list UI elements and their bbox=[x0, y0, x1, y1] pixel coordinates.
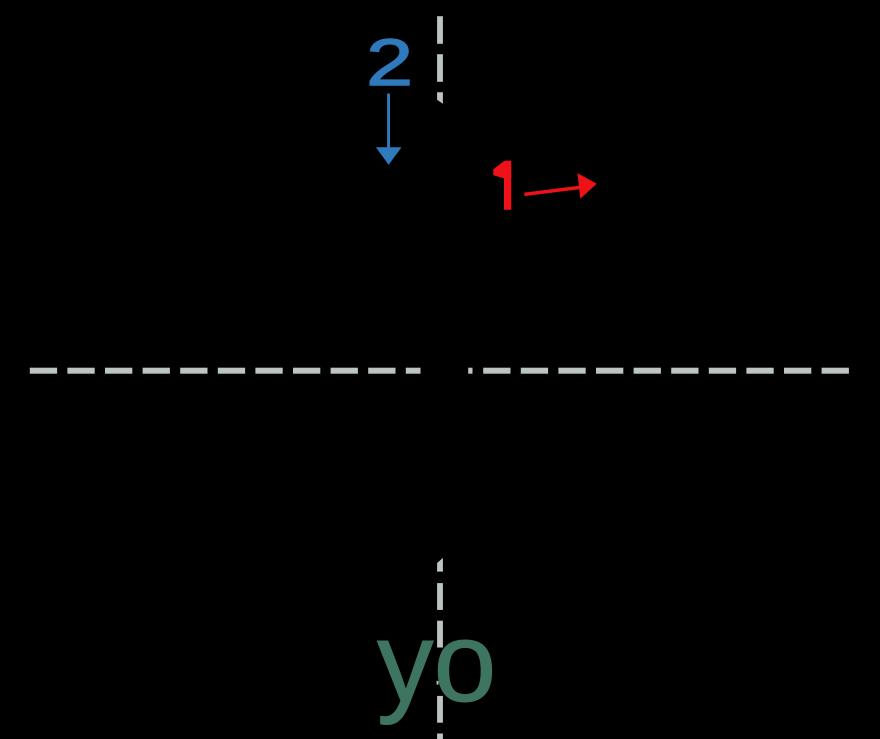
vertical dashed axis, top segment bbox=[437, 16, 443, 104]
horizontal dashed optical axis, center fragment bbox=[468, 368, 472, 374]
label 1 (red) bbox=[493, 161, 511, 210]
vertical dashed axis, bottom segment bbox=[437, 558, 443, 739]
arrow for label 1 (red, pointing right) bbox=[524, 173, 597, 199]
arrow for label 2 (blue, pointing down) bbox=[376, 94, 402, 165]
horizontal dashed optical axis, left segment bbox=[30, 368, 421, 374]
svg-text:2: 2 bbox=[366, 26, 413, 100]
horizontal dashed optical axis, right segment bbox=[483, 368, 849, 374]
svg-text:yo: yo bbox=[377, 599, 496, 725]
